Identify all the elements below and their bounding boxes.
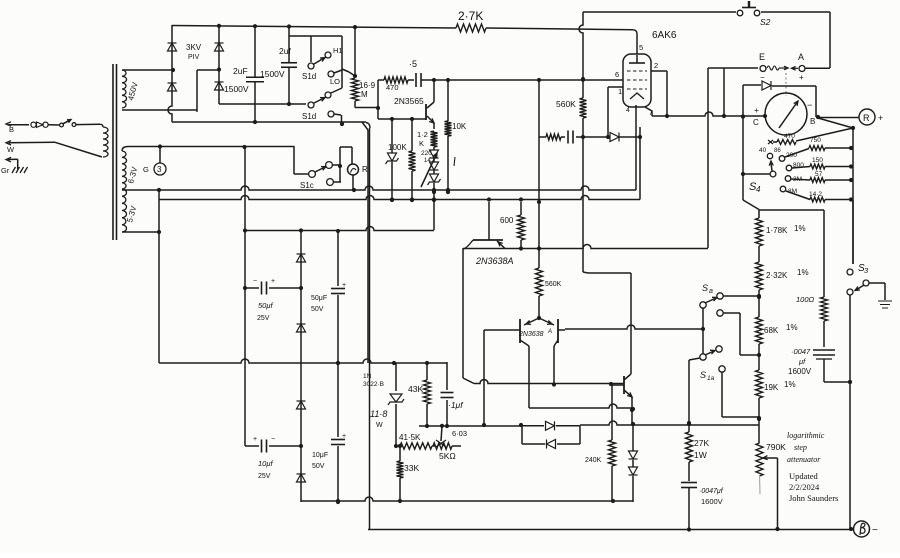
transistor Q5	[611, 374, 632, 397]
wire S3 ground lead	[869, 283, 885, 300]
svg-text:·0047μf: ·0047μf	[699, 488, 724, 495]
wire pin2 screen	[651, 71, 669, 118]
svg-text:50V: 50V	[312, 463, 325, 470]
tube V1 grids	[627, 71, 647, 89]
label pin1	[618, 87, 622, 96]
resistor 33K	[397, 444, 404, 502]
label pin5	[639, 43, 643, 52]
resistor 2.7K	[456, 24, 486, 32]
svg-text:S: S	[700, 370, 706, 380]
svg-text:·0047: ·0047	[791, 347, 811, 356]
svg-text:C: C	[753, 118, 759, 127]
svg-text:−: −	[872, 525, 878, 536]
zener D13 1N3022B	[388, 363, 404, 448]
fuse F1	[31, 122, 60, 127]
svg-text:John Saunders: John Saunders	[789, 493, 838, 503]
label meter B	[810, 117, 815, 126]
label 240K	[585, 457, 602, 464]
meter needle	[779, 101, 798, 128]
label A	[798, 52, 804, 62]
svg-text:−: −	[807, 100, 812, 110]
wire meter minus chain feed	[743, 200, 824, 218]
label C3 -+	[253, 278, 275, 285]
label 2N3565	[394, 96, 424, 106]
label S1c	[300, 181, 314, 190]
svg-text:logarithmic: logarithmic	[787, 431, 825, 440]
svg-text:1%: 1%	[786, 323, 798, 332]
resistor 16.9M	[352, 27, 381, 110]
wire x368 bottom corner	[366, 123, 370, 129]
diode D4	[215, 82, 224, 90]
wire E to meter plus	[722, 68, 726, 118]
label 6AK6	[652, 30, 677, 41]
label John Saunders	[789, 493, 838, 503]
wire Q5 emitter drop	[630, 397, 634, 424]
label pin2	[654, 61, 658, 70]
svg-text:25V: 25V	[258, 473, 271, 480]
label 33K	[404, 463, 419, 473]
label meter plus	[754, 105, 759, 115]
wire plate feed y104	[219, 103, 306, 105]
wire long vertical x368	[369, 128, 371, 530]
svg-text:5: 5	[639, 43, 643, 52]
diode D2	[168, 83, 177, 91]
label R pilot	[362, 165, 368, 174]
resistor 10K	[445, 80, 452, 194]
svg-text:LO: LO	[330, 77, 340, 86]
label pin6	[615, 70, 619, 79]
trimmer arrow	[421, 153, 437, 187]
wire heater drop A	[635, 105, 637, 190]
svg-text:4: 4	[626, 107, 630, 114]
svg-text:3: 3	[157, 165, 162, 174]
svg-text:2·7K: 2·7K	[458, 9, 483, 23]
label S2	[760, 17, 771, 27]
svg-text:100K: 100K	[388, 143, 407, 152]
wire base bus y119	[378, 117, 426, 121]
resistor 750	[785, 146, 853, 157]
label 470 grid	[386, 83, 399, 92]
wire diode box left	[521, 426, 523, 444]
label S3	[858, 263, 869, 275]
wire line-input G	[6, 157, 18, 169]
label E minus	[760, 73, 765, 82]
svg-text:1600V: 1600V	[788, 367, 812, 376]
label 3KV PIV	[186, 43, 202, 61]
label 800	[793, 162, 804, 169]
resistor 1.2K	[431, 131, 438, 147]
svg-text:6: 6	[615, 70, 619, 79]
label 16.9M	[359, 81, 376, 99]
label 2.32K	[766, 268, 809, 280]
label 41.5K	[399, 433, 421, 442]
label 50uF 50V	[311, 295, 327, 313]
svg-text:1600V: 1600V	[701, 497, 723, 506]
svg-text:2/2/2024: 2/2/2024	[789, 482, 820, 492]
label meter C	[753, 118, 759, 127]
switch S1d-2 wiper	[308, 98, 325, 109]
switch S1b pole	[60, 120, 76, 127]
capacitor C4 10uF 25V	[245, 440, 303, 453]
label 19K	[764, 380, 796, 392]
switch S4 contact 800	[786, 165, 792, 171]
switch S4 contact 8M	[780, 186, 786, 192]
svg-text:μf: μf	[798, 357, 806, 366]
diode D18	[629, 424, 638, 459]
svg-text:S1d: S1d	[302, 112, 316, 121]
svg-text:600: 600	[500, 216, 514, 225]
wire limiter bus y425	[580, 417, 761, 426]
label G	[1, 166, 10, 175]
capacitor C7 .0047uF 1600V	[681, 483, 697, 531]
resistor 470 (grid)	[378, 77, 414, 83]
svg-text:1a: 1a	[707, 375, 715, 382]
svg-text:S2: S2	[760, 17, 771, 27]
diode D1	[168, 43, 177, 51]
wire pilot loop	[338, 147, 352, 182]
wire S3 feed	[852, 200, 854, 264]
svg-text:560K: 560K	[556, 99, 576, 109]
wire bottom rail y530	[368, 527, 853, 531]
wire E feed x708	[707, 68, 709, 248]
resistor 68K	[756, 317, 763, 370]
pot 5K	[433, 424, 461, 450]
svg-text:2N3638A: 2N3638A	[475, 256, 514, 266]
label C1 2uF	[233, 66, 248, 76]
label 450V	[126, 80, 140, 101]
svg-text:1500V: 1500V	[224, 84, 249, 94]
wire Q4 collector drop	[553, 346, 555, 384]
capacitor C6	[568, 131, 573, 144]
label B minus	[872, 525, 878, 536]
label 220	[421, 150, 432, 164]
svg-text:a: a	[709, 288, 713, 295]
label 100K	[388, 143, 407, 152]
svg-text:PIV: PIV	[188, 54, 200, 61]
wire cap C2 column	[287, 27, 291, 107]
wire cap C1 column	[253, 26, 257, 124]
label 5K	[439, 451, 456, 461]
svg-text:4: 4	[756, 185, 761, 194]
resistor 470 range	[773, 128, 853, 144]
svg-text:H1: H1	[333, 46, 343, 55]
svg-text:+: +	[342, 433, 346, 440]
label 150	[812, 157, 823, 164]
wire 450V bottom tap	[122, 110, 197, 112]
label date	[789, 482, 820, 492]
svg-text:R: R	[863, 113, 870, 123]
label 600	[500, 216, 514, 225]
svg-text:+: +	[253, 436, 257, 443]
wire emitter rail y248	[463, 245, 708, 251]
label pin6 gap	[0, 0, 1, 1]
wire x539 upper	[538, 137, 540, 202]
label 6.3V	[126, 165, 139, 184]
capacitor C3 50uF 25V	[245, 282, 303, 295]
svg-text:6AK6: 6AK6	[652, 30, 677, 41]
wire heater rail 2	[159, 196, 640, 202]
wire Q2 collector drop	[462, 248, 464, 378]
svg-text:K: K	[419, 139, 424, 148]
label 2M	[793, 176, 802, 183]
svg-text:790K: 790K	[766, 442, 786, 452]
wire heater rail 1	[122, 186, 636, 192]
wire meter diode top	[741, 85, 816, 200]
label C2 1500V	[260, 69, 285, 79]
switch Sa wiper	[700, 297, 717, 308]
svg-text:1W: 1W	[694, 450, 707, 460]
transistor Q2 2N3638A	[463, 202, 505, 249]
label 1.78K	[766, 224, 806, 235]
wire heater drop B	[638, 127, 642, 200]
label stray 1	[454, 157, 455, 166]
svg-text:470: 470	[784, 133, 795, 140]
label C8	[788, 347, 812, 376]
diode D14	[521, 421, 580, 430]
resistor 1.78K	[756, 218, 763, 262]
terminal A	[799, 66, 805, 72]
label 560K tail	[545, 281, 562, 288]
meter linkage dashed	[785, 73, 787, 96]
label 6.03	[452, 429, 467, 438]
label 100 ohm	[796, 295, 815, 304]
svg-text:M: M	[361, 90, 368, 99]
label 68K	[764, 323, 798, 335]
diode D15	[522, 440, 580, 449]
wire HV rail corner down	[362, 122, 368, 363]
resistor 43K	[424, 363, 431, 428]
meter terminal left	[763, 114, 767, 118]
svg-text:+: +	[799, 73, 804, 82]
wire grid bus y80	[421, 78, 623, 82]
svg-text:560K: 560K	[545, 281, 562, 288]
svg-text:86: 86	[774, 148, 781, 154]
transformer T1 primary	[103, 127, 108, 157]
switch S4 wiper	[769, 161, 776, 177]
zener D8	[386, 119, 399, 202]
switch S1a contact low	[719, 366, 759, 417]
svg-text:−: −	[271, 436, 275, 443]
switch Sa contact mid	[717, 310, 759, 355]
connector E-A	[767, 66, 798, 70]
diode D11	[297, 401, 306, 409]
zener D7	[428, 170, 441, 202]
wire switch to primary	[76, 124, 103, 127]
transistor Q1 2N3565	[426, 82, 434, 129]
label logarithmic	[787, 431, 825, 440]
ground S3	[878, 301, 892, 308]
svg-text:Gr: Gr	[1, 166, 10, 175]
switch S1d-1 wiper	[308, 36, 325, 69]
svg-text:·5: ·5	[409, 59, 417, 69]
svg-text:25V: 25V	[257, 315, 270, 322]
label Q2 2N3638A	[475, 256, 514, 266]
svg-text:1%: 1%	[797, 268, 809, 277]
svg-text:B: B	[810, 117, 815, 126]
wire 6.3V tap rail	[122, 144, 294, 151]
label 1N3022B	[363, 373, 384, 388]
label S4	[749, 181, 761, 194]
switch S4 contact 40	[767, 153, 772, 158]
label step	[794, 443, 807, 452]
svg-text:27K: 27K	[694, 438, 709, 448]
svg-text:470: 470	[386, 83, 399, 92]
svg-text:19K: 19K	[764, 383, 779, 392]
label S1d-1	[302, 72, 316, 81]
diode D19	[629, 460, 638, 502]
wire 470 top left	[377, 80, 379, 119]
svg-text:41·5K: 41·5K	[399, 433, 421, 442]
svg-text:1N: 1N	[363, 373, 372, 380]
svg-text:R: R	[362, 165, 368, 174]
label 470 range	[784, 133, 795, 140]
switch S4 contact 470	[768, 140, 773, 144]
svg-text:A: A	[798, 52, 804, 62]
wire meter B drop	[818, 118, 855, 264]
switch S3 wiper	[855, 280, 869, 291]
wire Q4 base bus y329	[565, 325, 703, 329]
wire S1d box top	[289, 35, 342, 37]
svg-text:A: A	[547, 329, 552, 335]
wire Sa wiper drop	[701, 308, 705, 354]
wire screen vert x583	[579, 12, 585, 272]
tube V1 cathode	[630, 93, 644, 99]
svg-text:5KΩ: 5KΩ	[439, 451, 456, 461]
wire S1d box right	[341, 36, 343, 88]
svg-text:33K: 33K	[404, 463, 419, 473]
resistor 57	[791, 178, 853, 183]
capacitor .5	[416, 73, 421, 87]
wire pin5 supply	[636, 34, 638, 54]
wire Q3 base drop x484	[483, 330, 485, 424]
transformer T1 6.3V winding	[122, 151, 127, 189]
label .1uf	[448, 400, 464, 410]
resistor 560K screen	[580, 98, 587, 118]
svg-text:+: +	[878, 113, 883, 123]
wire line-input W	[6, 141, 102, 157]
label H1	[333, 46, 343, 55]
wire E lead	[708, 67, 758, 69]
label 560K screen	[556, 99, 576, 109]
wire LO to 16.9M	[342, 69, 357, 78]
switch S3 contact low	[847, 289, 853, 382]
wire filter col x245	[243, 147, 247, 446]
capacitor C5 .1uf	[441, 362, 454, 428]
svg-text:E: E	[759, 52, 765, 62]
ground G chassis	[12, 167, 28, 173]
wire S2 to A	[761, 12, 830, 68]
svg-text:B: B	[9, 125, 14, 134]
wire meter to R	[818, 117, 859, 119]
svg-text:S: S	[702, 283, 708, 293]
resistor 100K	[409, 119, 416, 202]
svg-text:W: W	[376, 422, 383, 429]
wire diode box right	[579, 426, 581, 444]
meter M1	[765, 93, 807, 135]
wire x158 drop	[158, 190, 160, 363]
resistor 240K	[609, 385, 616, 502]
diode D17	[762, 81, 771, 90]
svg-text:10μf: 10μf	[258, 459, 273, 468]
wire S4 wiper lead	[743, 173, 770, 175]
label C2 2uf	[279, 46, 291, 56]
resistor 19K	[756, 370, 763, 443]
wire line-input B	[6, 122, 29, 126]
switch S2	[737, 1, 760, 16]
label 200	[786, 152, 797, 159]
wire cathode-diode bus y137	[539, 80, 640, 137]
svg-text:10μF: 10μF	[312, 452, 328, 459]
label 27K	[694, 438, 709, 460]
label 57	[815, 171, 823, 178]
svg-text:W: W	[7, 145, 15, 154]
svg-text:·1μf: ·1μf	[448, 400, 464, 410]
resistor 600	[518, 202, 525, 248]
label LO	[330, 77, 340, 86]
svg-text:2·32K: 2·32K	[766, 271, 788, 280]
svg-text:68K: 68K	[764, 326, 779, 335]
label 11.8	[370, 409, 387, 429]
svg-text:−: −	[253, 278, 257, 285]
label .5	[409, 59, 417, 69]
pilot lamp R	[348, 164, 359, 175]
label S1d-2	[302, 112, 316, 121]
wire ground rail y502	[301, 497, 633, 503]
switch S1d-1 contact LO	[328, 70, 342, 77]
transformer T1 5.3V winding	[122, 189, 127, 232]
svg-text:2N3638: 2N3638	[518, 331, 544, 338]
switch S1a contact up	[716, 346, 722, 352]
svg-text:step: step	[794, 443, 807, 452]
svg-text:1%: 1%	[784, 380, 796, 389]
switch Sa contact top	[717, 293, 761, 299]
svg-text:S1d: S1d	[302, 72, 316, 81]
wire A to S2	[805, 67, 830, 69]
tube V1 6AK6 envelope	[623, 54, 651, 107]
terminal R	[859, 109, 875, 125]
svg-text:1: 1	[618, 87, 622, 96]
diode D9	[297, 254, 306, 262]
svg-text:50μf: 50μf	[258, 301, 273, 310]
svg-text:40: 40	[759, 147, 767, 154]
label 5.3V	[125, 204, 138, 223]
wire diode col x301	[300, 230, 302, 502]
wire Q3 collector drop	[529, 346, 635, 411]
terminal B minus	[854, 521, 870, 537]
terminal E	[760, 66, 766, 72]
wire pin7 to meter	[645, 107, 765, 119]
diode D10	[297, 324, 306, 332]
svg-text:S1c: S1c	[300, 181, 314, 190]
switch S1c contact 2	[327, 179, 341, 186]
label C4 10uf	[258, 459, 273, 480]
label 43K	[408, 384, 423, 394]
wire Q5 collector riser	[583, 272, 631, 374]
resistor 560K cathode	[546, 134, 561, 140]
svg-text:Updated: Updated	[789, 471, 819, 481]
wire chain to B	[848, 380, 853, 531]
label 1.2K	[417, 130, 428, 148]
switch S4 contact 2M	[785, 176, 791, 182]
svg-text:50V: 50V	[311, 306, 324, 313]
label Updated	[789, 471, 819, 481]
wire pilot to rail	[352, 175, 354, 190]
svg-text:50μF: 50μF	[311, 295, 327, 302]
label Gr	[143, 165, 149, 174]
switch S1d-2 contact LO	[328, 111, 341, 117]
label 40	[759, 147, 781, 154]
label meter minus	[807, 100, 812, 110]
